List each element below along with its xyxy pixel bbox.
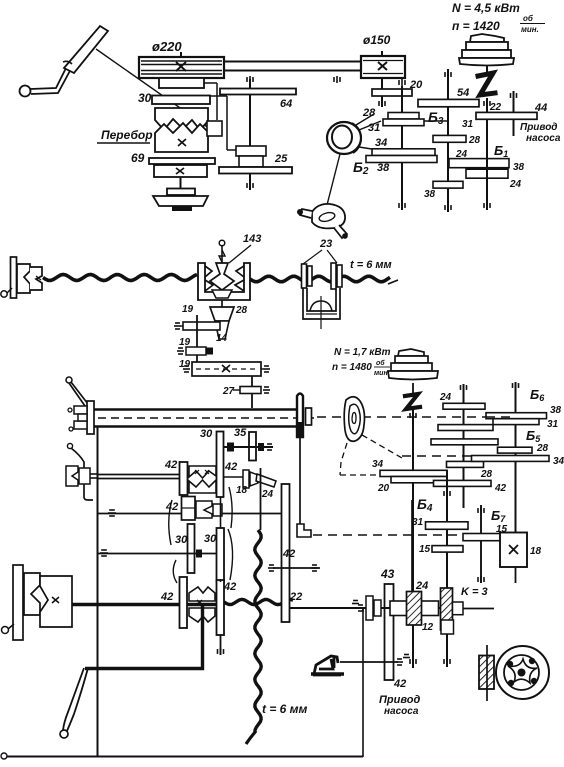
dashed y456	[402, 455, 471, 457]
cone pulley f220	[139, 57, 224, 78]
svg-text:Привод: Привод	[379, 694, 420, 706]
svg-text:N = 1,7 кВт: N = 1,7 кВт	[334, 347, 391, 358]
svg-text:Привод: Привод	[520, 122, 558, 133]
thick L link	[85, 606, 203, 669]
gearbox right lower edge	[362, 609, 364, 757]
belt to f150	[224, 61, 362, 63]
clutch small	[366, 596, 373, 620]
svg-text:27: 27	[222, 386, 235, 397]
link line B3	[424, 120, 448, 122]
wavy shaft mid	[250, 276, 390, 281]
curve links	[229, 487, 232, 528]
svg-text:20: 20	[377, 483, 390, 494]
gear bar b7	[463, 534, 501, 541]
svg-text:24: 24	[415, 580, 428, 592]
vertical link shaft	[220, 497, 222, 528]
svg-text:n = 1480: n = 1480	[332, 362, 372, 373]
shaft S2 lines	[98, 474, 180, 476]
svg-text:54: 54	[457, 87, 469, 99]
shaft x412 vert	[411, 500, 413, 625]
motor M2	[398, 349, 424, 356]
svg-text:31: 31	[412, 517, 424, 528]
tensioner ring	[327, 122, 361, 154]
apron clutch	[24, 573, 40, 615]
selector leader line	[96, 49, 213, 131]
shaft C vertical	[447, 69, 449, 212]
clutch V3	[189, 587, 215, 601]
hub ticks shaft II bottom	[246, 183, 248, 188]
svg-text:K = 3: K = 3	[461, 586, 488, 598]
spindle lever	[66, 377, 72, 383]
gear bar 20	[372, 89, 412, 96]
hatched gear 24	[390, 601, 439, 616]
worm box	[198, 263, 250, 300]
shaft A below pulley	[381, 78, 383, 107]
perebор clutch upper	[155, 108, 208, 130]
gear 31 bar on C	[433, 135, 466, 142]
svg-text:t = 6 мм: t = 6 мм	[262, 702, 308, 716]
S4 left hub	[101, 549, 107, 551]
blob dashed leaders	[362, 435, 402, 458]
gear 28-31 bars	[388, 113, 419, 120]
svg-text:143: 143	[243, 233, 261, 245]
svg-text:22: 22	[489, 102, 502, 113]
pump drive shaft E	[513, 91, 515, 136]
gear bars lower C-D	[449, 159, 509, 168]
left end support	[11, 257, 17, 298]
svg-text:30: 30	[175, 534, 188, 546]
X box 18	[500, 533, 527, 568]
feed lever 2	[67, 443, 72, 448]
gear 22-44 bar	[476, 112, 537, 119]
shaft F	[446, 470, 448, 667]
spindle body	[94, 408, 297, 411]
clutch V1 plates	[180, 462, 188, 495]
gerotor pump	[496, 646, 549, 699]
gear 15 bar	[432, 546, 463, 553]
svg-text:42: 42	[282, 548, 295, 560]
gear plate 42-22 right	[282, 484, 290, 622]
shaft II vertical	[249, 79, 251, 190]
svg-text:N = 4,5 кВт: N = 4,5 кВт	[452, 1, 520, 15]
svg-text:24: 24	[509, 179, 522, 190]
bevel 18-24	[243, 470, 249, 488]
svg-text:30: 30	[200, 428, 213, 440]
dashed to gearbox	[313, 534, 500, 536]
bowl gear	[167, 189, 195, 196]
spindle left end	[87, 401, 94, 434]
clutch 2 block	[182, 497, 196, 521]
gear plate mid-left	[188, 524, 195, 573]
tensioner rod	[327, 154, 340, 205]
shaft to 42 gear	[273, 567, 320, 569]
svg-text:31: 31	[368, 122, 380, 134]
svg-text:об: об	[376, 359, 385, 367]
svg-text:42: 42	[224, 461, 237, 473]
svg-text:насоса: насоса	[384, 706, 419, 717]
clutch on F	[441, 620, 454, 634]
svg-text:38: 38	[513, 162, 525, 173]
gearbox left edge	[97, 427, 99, 757]
svg-text:п = 1420: п = 1420	[452, 19, 500, 33]
perebор clutch lower	[155, 123, 208, 152]
hub ticks shaft II top	[246, 77, 248, 82]
svg-text:42: 42	[160, 591, 173, 603]
shaft G	[463, 384, 465, 508]
svg-text:28: 28	[362, 107, 376, 119]
svg-text:38: 38	[550, 405, 562, 416]
svg-text:30: 30	[204, 533, 217, 545]
lever handle top-left	[20, 86, 31, 97]
clutch on shaft II	[236, 146, 266, 156]
svg-text:28: 28	[480, 469, 493, 480]
dashed centerline right	[317, 416, 488, 418]
svg-text:43: 43	[380, 567, 395, 581]
svg-text:25: 25	[274, 153, 288, 165]
gear 54 bar	[418, 99, 479, 106]
svg-text:42: 42	[164, 459, 177, 471]
svg-text:42: 42	[393, 678, 406, 690]
bracket lines right of perebор	[204, 82, 217, 84]
gear plate 35	[249, 432, 256, 461]
gear 69 disc	[149, 158, 215, 164]
shaft H	[515, 382, 517, 532]
bevel 14	[215, 321, 229, 339]
wavy shaft left	[43, 275, 197, 281]
shaft vert 27	[251, 376, 253, 408]
gearbox bottom edge	[5, 756, 363, 758]
gear 34-38 bars	[372, 149, 435, 156]
svg-text:24: 24	[439, 392, 452, 403]
svg-text:38: 38	[424, 189, 436, 200]
spindle centerline dashed	[98, 417, 315, 419]
motor2 shaft	[412, 383, 414, 393]
svg-text:24: 24	[261, 489, 274, 500]
gear bars on G	[443, 403, 485, 409]
bevel 28	[210, 307, 234, 321]
vertical line x300	[299, 437, 301, 524]
pump shaft	[290, 607, 449, 609]
shaft vert 19	[196, 315, 198, 374]
svg-text:35: 35	[234, 427, 247, 439]
svg-text:18: 18	[530, 546, 542, 557]
pump strainer	[479, 656, 494, 690]
svg-text:69: 69	[131, 151, 145, 165]
svg-text:28: 28	[235, 305, 248, 316]
shaft S4	[98, 553, 217, 555]
leadscrew vertical	[260, 468, 262, 530]
svg-text:44: 44	[534, 102, 547, 114]
shaft I	[480, 505, 482, 583]
svg-text:42: 42	[223, 581, 236, 593]
gear 64 bar	[220, 89, 296, 95]
tensioner crank	[312, 204, 345, 229]
disc 43	[385, 584, 394, 680]
shaft B vertical	[401, 86, 403, 210]
gear plate mid-right	[217, 528, 225, 582]
hook clamp	[313, 656, 341, 675]
svg-text:ø220: ø220	[152, 39, 182, 54]
apron lever	[63, 668, 84, 730]
gear hub b	[186, 347, 206, 355]
worm gear	[210, 263, 234, 290]
ring link lines	[356, 114, 374, 125]
gear 30 bar	[152, 96, 210, 105]
svg-text:14: 14	[216, 333, 228, 344]
filter blob	[344, 397, 364, 442]
svg-text:23: 23	[319, 238, 332, 250]
svg-text:15: 15	[419, 544, 431, 555]
feed rod thick	[72, 603, 220, 607]
gear 38 bar on C	[433, 181, 463, 188]
stepped shaft bar	[192, 362, 261, 376]
lower link line	[340, 661, 398, 663]
svg-text:28: 28	[536, 443, 549, 454]
svg-text:мин.: мин.	[521, 25, 539, 34]
motor shaft D	[486, 66, 488, 72]
svg-text:19: 19	[182, 304, 194, 315]
svg-text:31: 31	[462, 119, 474, 130]
svg-text:31: 31	[547, 419, 559, 430]
shaft S1	[224, 446, 273, 448]
svg-text:20: 20	[409, 79, 423, 91]
hatched gear K	[441, 588, 453, 630]
svg-text:12: 12	[422, 622, 434, 633]
wavy feed rod	[224, 599, 293, 604]
svg-text:Перебор: Перебор	[101, 128, 153, 142]
gear bars 34-20	[380, 470, 447, 476]
Z2 coupling	[405, 394, 420, 409]
clutch outside box	[66, 466, 78, 486]
svg-text:18: 18	[236, 485, 248, 496]
feed nut unit	[302, 264, 307, 288]
motor M1	[470, 34, 504, 42]
svg-text:34: 34	[553, 456, 564, 467]
pump shaft drop	[362, 608, 364, 612]
clutch V3 plates	[180, 577, 188, 628]
svg-text:34: 34	[375, 137, 387, 149]
svg-text:34: 34	[372, 459, 384, 470]
svg-text:30: 30	[138, 91, 152, 105]
svg-text:мин: мин	[374, 370, 388, 377]
svg-text:38: 38	[377, 162, 390, 174]
gear bars on H	[486, 413, 547, 419]
gear 27 bar	[240, 387, 261, 394]
svg-text:насоса: насоса	[526, 133, 561, 144]
gear 25 bar	[219, 167, 292, 174]
shaft S3	[98, 513, 181, 515]
svg-text:28: 28	[468, 135, 481, 146]
gear plate 30 top	[217, 432, 224, 498]
svg-text:64: 64	[280, 98, 292, 110]
clutch V1	[189, 466, 216, 478]
svg-text:t = 6 мм: t = 6 мм	[350, 259, 392, 271]
pulley f150	[361, 56, 405, 78]
svg-text:42: 42	[494, 483, 507, 494]
apron plate	[13, 565, 23, 640]
svg-text:об: об	[523, 14, 534, 23]
dashed centerline y417 end	[486, 416, 515, 418]
foot bracket	[297, 524, 311, 537]
shaft Z1 coupling	[478, 73, 495, 95]
hub ticks shaft B top	[398, 80, 400, 85]
gear 31 bar b4	[426, 522, 469, 530]
svg-text:22: 22	[289, 591, 302, 603]
output stem	[180, 177, 182, 189]
chuck plate	[297, 394, 303, 438]
svg-text:ø150: ø150	[363, 33, 391, 47]
gear 19 bar a	[183, 322, 220, 330]
